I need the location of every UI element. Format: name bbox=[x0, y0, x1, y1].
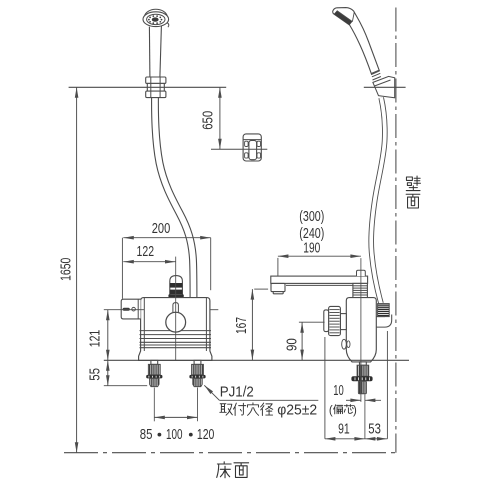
svg-text:167: 167 bbox=[234, 317, 250, 334]
svg-text:121: 121 bbox=[87, 330, 103, 348]
svg-text:122: 122 bbox=[137, 244, 155, 260]
svg-text:10: 10 bbox=[333, 383, 344, 399]
svg-text:200: 200 bbox=[152, 221, 171, 237]
svg-text:1650: 1650 bbox=[58, 258, 74, 281]
svg-text:53: 53 bbox=[368, 421, 381, 437]
svg-text:55: 55 bbox=[87, 368, 103, 381]
svg-text:(300): (300) bbox=[299, 209, 324, 225]
svg-text:85: 85 bbox=[140, 427, 153, 443]
svg-text:91: 91 bbox=[338, 421, 350, 437]
svg-text:190: 190 bbox=[303, 241, 320, 257]
svg-text:PJ1/2: PJ1/2 bbox=[220, 385, 254, 401]
svg-text:100: 100 bbox=[166, 427, 183, 443]
svg-text:90: 90 bbox=[284, 338, 300, 351]
svg-text:650: 650 bbox=[200, 111, 216, 130]
svg-text:120: 120 bbox=[197, 427, 215, 443]
svg-text:): ) bbox=[353, 405, 357, 417]
svg-text:φ25±2: φ25±2 bbox=[277, 403, 317, 419]
svg-text:(: ( bbox=[329, 405, 333, 417]
